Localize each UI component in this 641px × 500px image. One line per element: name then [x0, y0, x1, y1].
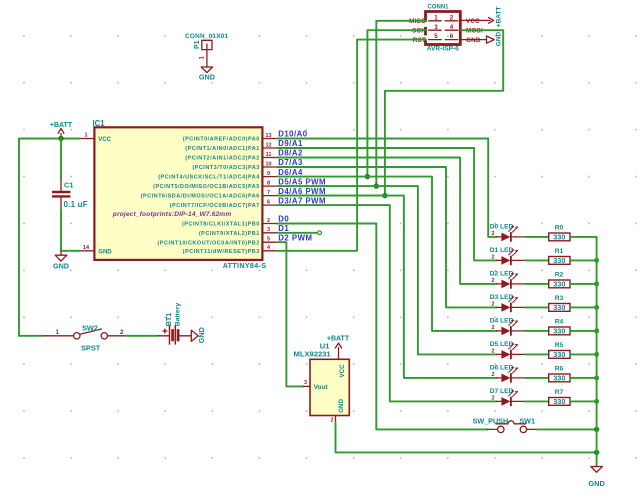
svg-text:330: 330 [553, 374, 565, 383]
IC1 pin 7 PA6 [141, 190, 277, 200]
svg-text:8: 8 [267, 181, 270, 187]
svg-text:C1: C1 [64, 181, 74, 190]
svg-text:13: 13 [265, 133, 271, 139]
connector P1 CONN_01X01 [185, 33, 229, 50]
junction R3 at rail [594, 305, 599, 310]
svg-text:ATTINY84-S: ATTINY84-S [223, 261, 267, 270]
wire PA0 to D0 LED [277, 139, 497, 237]
wire SW1 to ground rail [537, 428, 597, 430]
wire C1 top [60, 139, 62, 179]
wire SW2 to BT1 [126, 335, 158, 337]
svg-text:330: 330 [553, 280, 565, 289]
IC1 pin 10 PA3 [192, 161, 277, 171]
junction MISO on A5 row [374, 183, 379, 188]
dangling end circle on D1 [318, 231, 322, 235]
resistor R5 330 [549, 342, 570, 359]
junction SW1 at rail [594, 427, 599, 432]
LED D5 [490, 341, 525, 359]
wire MOSI (CONN1-4 to D4/A6) [277, 30, 503, 195]
LED D1 [490, 247, 525, 265]
svg-text:(PCINT2/AIN1/ADC2)PA2: (PCINT2/AIN1/ADC2)PA2 [185, 156, 260, 162]
junction R1 at rail [594, 258, 599, 263]
LED D7 [490, 388, 525, 406]
wire D0 LED to R0 [525, 236, 549, 238]
wire C1 bottom to GND and IC1 pin14 [61, 210, 80, 251]
svg-text:Vout: Vout [314, 384, 329, 391]
svg-text:D1: D1 [278, 224, 289, 233]
svg-text:D4/A6 PWM: D4/A6 PWM [278, 187, 326, 196]
wire R2 to ground rail [570, 283, 597, 285]
IC1 pin 9 PA4 [158, 171, 277, 181]
junction R6 at rail [594, 375, 599, 380]
svg-text:(PCINT8/CLKI/XTAL1)PB0: (PCINT8/CLKI/XTAL1)PB0 [182, 222, 260, 228]
svg-text:CONN_01X01: CONN_01X01 [185, 33, 229, 40]
svg-text:6: 6 [267, 200, 270, 206]
svg-text:330: 330 [553, 327, 565, 336]
wire +BATT rail to SW2 [19, 335, 43, 337]
svg-text:+BATT: +BATT [496, 7, 503, 28]
pin 1 of P1 [200, 50, 207, 67]
svg-text:R7: R7 [555, 389, 564, 396]
wire R3 to ground rail [570, 306, 597, 308]
resistor R0 330 [549, 224, 570, 241]
svg-text:2: 2 [267, 218, 270, 224]
resistor R3 330 [549, 295, 570, 312]
IC1 pin 12 PA1 [185, 142, 277, 152]
svg-text:SW2: SW2 [82, 324, 98, 333]
IC1 pin 11 PA2 [185, 152, 277, 162]
wire D5 LED to R5 [525, 353, 549, 355]
svg-text:4: 4 [450, 24, 454, 31]
svg-text:GND: GND [466, 37, 481, 44]
junction R4 at rail [594, 328, 599, 333]
ground under C1 [53, 251, 69, 270]
ground bottom right [588, 467, 605, 488]
svg-text:(PCINT0/AREF/ADC0)PA0: (PCINT0/AREF/ADC0)PA0 [183, 137, 260, 143]
svg-text:5: 5 [267, 237, 270, 243]
LED D2 [490, 271, 525, 289]
wire D2 LED to R2 [525, 283, 549, 285]
wire PA5 to D5 LED [277, 186, 497, 354]
svg-text:P1: P1 [194, 40, 201, 49]
wire D4 LED to R4 [525, 330, 549, 332]
svg-text:2: 2 [330, 418, 333, 424]
resistor R4 330 [549, 318, 570, 335]
svg-text:330: 330 [553, 397, 565, 406]
svg-text:(PCINT6/SDA/DI/MOSI/OC1A/ADC6): (PCINT6/SDA/DI/MOSI/OC1A/ADC6)PA6 [141, 194, 260, 200]
svg-text:330: 330 [553, 256, 565, 265]
svg-text:GND: GND [199, 72, 215, 81]
resistor R6 330 [549, 365, 570, 382]
svg-text:AVR-ISP-6: AVR-ISP-6 [427, 45, 459, 52]
wire R4 to ground rail [570, 330, 597, 332]
wire D1 stub (dangling) [277, 232, 317, 234]
wire PA3 to D3 LED [277, 167, 497, 307]
junction SCK on A4 row [365, 174, 370, 179]
sensor U1 MLX92231 body [294, 342, 350, 416]
svg-text:11: 11 [266, 152, 272, 158]
capacitor C1 0.1 uF [52, 179, 88, 211]
svg-text:(PCINT1/AIN0/ADC1)PA1: (PCINT1/AIN0/ADC1)PA1 [185, 146, 260, 152]
svg-text:2: 2 [491, 302, 494, 308]
svg-text:SPST: SPST [81, 343, 101, 352]
svg-text:+BATT: +BATT [327, 336, 350, 343]
svg-text:1: 1 [434, 14, 438, 21]
svg-text:R3: R3 [555, 295, 564, 302]
wire D3 LED to R3 [525, 306, 549, 308]
svg-text:GND: GND [53, 261, 69, 270]
svg-text:(PCINT10/CKOUT/OC0A/INT0)PB2: (PCINT10/CKOUT/OC0A/INT0)PB2 [157, 240, 259, 246]
wire PA6 to D6 LED [277, 196, 497, 378]
power +BATT right of CONN1 [485, 7, 503, 28]
svg-text:(PCINT11/dW/RESET)PB3: (PCINT11/dW/RESET)PB3 [183, 249, 260, 255]
svg-text:GND: GND [98, 249, 112, 255]
svg-text:D0: D0 [278, 215, 289, 224]
svg-text:2: 2 [491, 278, 494, 284]
svg-text:D2 PWM: D2 PWM [278, 233, 312, 242]
wire R1 to ground rail [570, 259, 597, 261]
svg-text:14: 14 [83, 245, 90, 251]
svg-text:2: 2 [491, 325, 494, 331]
power +BATT above U1 [327, 336, 350, 360]
svg-text:R2: R2 [555, 271, 564, 278]
svg-text:R0: R0 [555, 224, 564, 231]
svg-text:IC1: IC1 [93, 119, 106, 128]
LED D4 [490, 318, 525, 336]
U1 pin 3 Vout [303, 380, 310, 386]
svg-text:6: 6 [450, 33, 454, 40]
svg-text:D9/A1: D9/A1 [278, 139, 303, 148]
wire PA4 to D4 LED [277, 177, 497, 331]
wire RST (CONN1-5 to PB3) [277, 40, 426, 251]
svg-text:2: 2 [491, 349, 494, 355]
svg-text:GND: GND [338, 399, 345, 413]
power +BATT top left [50, 122, 73, 139]
svg-text:VCC: VCC [466, 18, 480, 25]
wire D0 (PB0 to SW1) [277, 224, 488, 430]
svg-text:2: 2 [450, 14, 454, 21]
battery BT1 [158, 303, 191, 345]
svg-text:SW_PUSH: SW_PUSH [473, 416, 509, 425]
junction R2 at rail [594, 281, 599, 286]
svg-text:2: 2 [491, 231, 494, 237]
ground right of BT1 [191, 327, 206, 343]
svg-text:D5/A5 PWM: D5/A5 PWM [278, 177, 326, 186]
junction at C1 top tap [58, 136, 63, 141]
wire PA7 to D7 LED [277, 205, 497, 401]
svg-text:D6/A4: D6/A4 [278, 168, 303, 177]
switch SW2 SPST [43, 324, 126, 353]
svg-text:3: 3 [267, 227, 270, 233]
svg-text:VCC: VCC [98, 137, 111, 143]
svg-text:330: 330 [553, 303, 565, 312]
svg-text:MLX92231: MLX92231 [294, 350, 332, 359]
wire +BATT rail to IC1 VCC [19, 139, 80, 336]
svg-text:0.1 uF: 0.1 uF [64, 200, 88, 209]
wire PA1 to D1 LED [277, 148, 497, 260]
junction R5 at rail [594, 352, 599, 357]
svg-text:9: 9 [267, 171, 270, 177]
svg-text:(PCINT9/XTAL2)PB1: (PCINT9/XTAL2)PB1 [199, 231, 260, 237]
wire R0 to ground rail [570, 236, 597, 238]
switch SW1 SW_PUSH [473, 416, 537, 432]
wire SCK (CONN1-3 to D6/A4) [367, 30, 425, 176]
svg-text:5: 5 [434, 33, 438, 40]
wire U1 GND to ground rail [336, 423, 597, 453]
CONN1 pins 3 and 4 [429, 24, 458, 31]
wire D2 PWM (PB2 to U1 Vout) [277, 242, 303, 386]
svg-text:GND: GND [588, 479, 605, 488]
wire MISO (CONN1-1 to D5/A5) [376, 21, 426, 186]
wire PA2 to D2 LED [277, 158, 497, 284]
svg-text:1: 1 [84, 133, 87, 139]
ground under P1 [199, 67, 215, 81]
svg-text:Battery: Battery [175, 303, 182, 327]
svg-text:D3/A7 PWM: D3/A7 PWM [278, 196, 326, 205]
wire R6 to ground rail [570, 377, 597, 379]
svg-text:2: 2 [491, 396, 494, 402]
svg-text:GND: GND [496, 31, 503, 46]
svg-text:R4: R4 [555, 318, 564, 325]
resistor R2 330 [549, 271, 570, 288]
svg-text:330: 330 [553, 233, 565, 242]
ground right of CONN1 [487, 31, 503, 46]
svg-text:R5: R5 [555, 342, 564, 349]
op IC1 ATTINY84-S body [93, 119, 267, 270]
svg-text:10: 10 [265, 161, 271, 167]
svg-text:2: 2 [491, 255, 494, 261]
svg-text:D7/A3: D7/A3 [278, 158, 303, 167]
wire R7 to ground rail [570, 400, 597, 402]
junction U1 GND at rail [594, 450, 599, 455]
IC1 pin 4 PB3 [183, 245, 277, 255]
svg-text:+BATT: +BATT [50, 122, 73, 129]
svg-text:SW1: SW1 [519, 416, 535, 425]
IC1 pin 13 PA0 [183, 133, 277, 143]
svg-text:3: 3 [304, 380, 307, 386]
wire D7 LED to R7 [525, 400, 549, 402]
svg-text:R6: R6 [555, 365, 564, 372]
IC1 pin 8 PA5 [153, 181, 277, 191]
CONN1 pin name GND [461, 37, 486, 44]
wire ground rail [596, 237, 598, 467]
svg-text:D10/A0: D10/A0 [278, 130, 308, 139]
svg-text:3: 3 [434, 24, 438, 31]
svg-text:(PCINT3/T0/ADC3)PA3: (PCINT3/T0/ADC3)PA3 [192, 165, 259, 171]
svg-text:D8/A2: D8/A2 [278, 149, 303, 158]
svg-text:CONN1: CONN1 [428, 5, 450, 11]
LED D3 [490, 294, 525, 312]
wire R5 to ground rail [570, 353, 597, 355]
connector CONN1 AVR-ISP-6 body [424, 5, 461, 53]
svg-text:RST: RST [413, 37, 426, 44]
IC1 pin 3 PB1 [199, 227, 277, 237]
svg-text:R1: R1 [555, 248, 564, 255]
svg-text:BT1: BT1 [164, 313, 173, 327]
svg-text:7: 7 [267, 190, 270, 196]
IC1 pin 6 PA7 [170, 200, 277, 210]
U1 pin 2 GND [330, 416, 335, 424]
resistor R7 330 [549, 389, 570, 406]
IC1 pin 5 PB2 [157, 237, 277, 247]
svg-text:(PCINT4/USCK/SCL/T1/ADC4)PA4: (PCINT4/USCK/SCL/T1/ADC4)PA4 [158, 175, 260, 181]
svg-text:(PCINT5/DO/MISO/OC1B/ADC5)PA5: (PCINT5/DO/MISO/OC1B/ADC5)PA5 [153, 184, 260, 190]
CONN1 pins 5 and 6 [429, 33, 458, 40]
IC1 pin 14 GND [80, 245, 112, 255]
IC1 pin 2 PB0 [182, 218, 277, 228]
LED D6 [490, 365, 525, 383]
svg-text:330: 330 [553, 350, 565, 359]
svg-text:12: 12 [265, 142, 271, 148]
LED D0 [490, 224, 525, 242]
IC1 pin 1 VCC [80, 133, 111, 143]
svg-text:2: 2 [491, 372, 494, 378]
svg-text:project_footprints:DIP-14_W7.6: project_footprints:DIP-14_W7.62mm [112, 211, 232, 218]
svg-text:VCC: VCC [339, 364, 346, 378]
svg-text:GND: GND [197, 327, 206, 343]
wire D6 LED to R6 [525, 377, 549, 379]
CONN1 pin name VCC [461, 18, 485, 25]
junction R7 at rail [594, 399, 599, 404]
CONN1 pins 1 and 2 [429, 14, 458, 21]
junction MOSI on A6 row [382, 193, 387, 198]
wire D1 LED to R1 [525, 259, 549, 261]
resistor R1 330 [549, 248, 570, 265]
svg-text:(PCINT7/ICP/OC0B/ADC7)PA7: (PCINT7/ICP/OC0B/ADC7)PA7 [170, 203, 260, 209]
